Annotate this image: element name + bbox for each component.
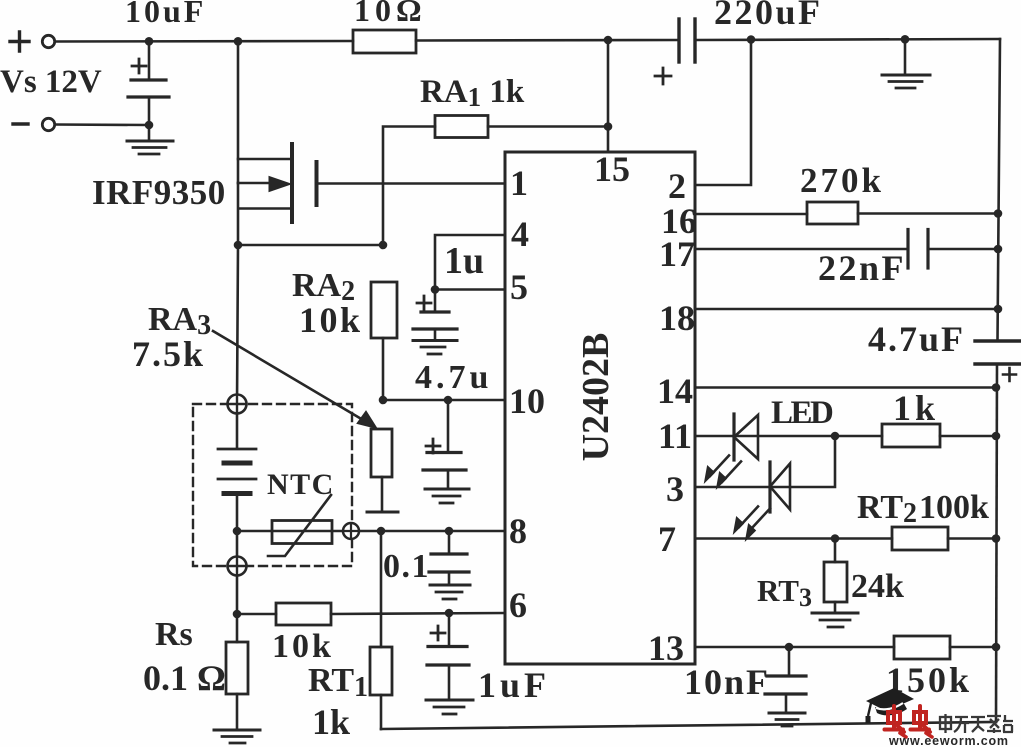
potentiometer RA3 7.5k xyxy=(367,429,398,512)
op-amp U1 U2402B IC body xyxy=(505,152,695,664)
svg-text:5: 5 xyxy=(510,267,528,307)
resistor Rs 0.1 Ohm xyxy=(226,614,248,729)
node Vs- terminal xyxy=(13,118,55,130)
junction dot rail pin18 xyxy=(994,305,1003,314)
junction dot source column xyxy=(234,37,243,46)
junction dot rail pin7 xyxy=(992,534,1001,543)
watermark chongchong glyph 2 xyxy=(911,706,933,737)
wire source column down to battery xyxy=(237,245,238,404)
svg-text:U2402B: U2402B xyxy=(575,333,617,462)
junction dot pin5 corner xyxy=(431,285,440,294)
wire pin 6 row xyxy=(331,613,505,614)
LED D1 xyxy=(734,414,758,460)
resistor 10 Ohm xyxy=(353,30,416,53)
svg-text:1uF: 1uF xyxy=(478,665,550,705)
capacitor 22nF xyxy=(695,230,998,269)
svg-text:RT2100k: RT2100k xyxy=(857,489,989,529)
capacitor 0.1 body and ground xyxy=(429,531,470,599)
wire top rail right xyxy=(695,39,1000,40)
svg-text:22nF: 22nF xyxy=(818,248,906,288)
svg-text:6: 6 xyxy=(509,585,527,625)
LED D2 arrows xyxy=(734,507,771,541)
capacitor 1u loop pins 4-5 xyxy=(435,235,505,290)
svg-text:1k: 1k xyxy=(312,702,350,742)
svg-text:4: 4 xyxy=(511,214,529,254)
svg-text:RA1 1k: RA1 1k xyxy=(420,74,525,112)
svg-text:LED: LED xyxy=(771,395,833,431)
node battery plus terminal xyxy=(228,395,247,414)
svg-text:0.1 Ω: 0.1 Ω xyxy=(143,658,226,698)
wire right rail upper xyxy=(998,39,1001,340)
ground below input cap xyxy=(127,125,173,154)
LED D2 xyxy=(770,462,790,512)
transistor Q1 IRF9350 xyxy=(238,41,317,245)
junction dot pin8 RT1 tap xyxy=(377,527,386,536)
svg-text:11: 11 xyxy=(658,416,692,456)
wire pin 18 row xyxy=(695,308,998,311)
resistor RT2 100k xyxy=(892,527,996,550)
wire gate to pin 1 xyxy=(317,182,505,185)
junction dot pin10 cap xyxy=(444,396,453,405)
svg-text:8: 8 xyxy=(509,511,527,551)
watermark chongchong glyph 1 xyxy=(885,706,907,737)
wire pin 3 row xyxy=(695,436,835,487)
svg-text:270k: 270k xyxy=(800,161,884,200)
junction dot LED join xyxy=(831,432,840,441)
svg-text:www.eeworm.com: www.eeworm.com xyxy=(888,734,1009,747)
node NTC output terminal xyxy=(343,523,359,539)
svg-text:24k: 24k xyxy=(851,568,904,605)
resistor 10k lower xyxy=(237,603,331,625)
LED D1 arrows xyxy=(705,456,742,489)
svg-text:7.5k: 7.5k xyxy=(132,334,205,374)
ground below RT3 xyxy=(812,613,858,627)
svg-text:2: 2 xyxy=(668,166,686,206)
svg-text:1: 1 xyxy=(510,163,528,203)
junction dot pin15 column xyxy=(604,36,613,45)
junction dot drain left xyxy=(234,241,243,250)
resistor RT3 24k xyxy=(824,539,847,613)
node Vs+ terminal xyxy=(10,32,55,51)
svg-text:1k: 1k xyxy=(893,388,939,428)
wire pin 13 row xyxy=(695,646,894,649)
wiper arrow RA3 xyxy=(213,331,377,429)
svg-text:NTC: NTC xyxy=(267,468,335,501)
svg-text:10uF: 10uF xyxy=(125,0,206,29)
junction dot RA1 right xyxy=(604,122,613,131)
wire pin 8 row xyxy=(359,530,505,533)
svg-text:3: 3 xyxy=(666,469,684,509)
svg-text:RT3: RT3 xyxy=(757,573,812,612)
junction dot at 10uF top xyxy=(145,37,154,46)
svg-text:13: 13 xyxy=(648,628,684,668)
junction dot RT3 tap xyxy=(831,534,840,543)
junction dot 10nF tap xyxy=(785,643,794,652)
junction dot rail pin13 xyxy=(992,643,1001,652)
thermistor NTC xyxy=(268,495,332,556)
wire pin2 to 220uF junction xyxy=(695,39,751,185)
resistor 150k xyxy=(894,636,996,659)
junction dot at minus rail xyxy=(145,121,154,130)
junction dot 220uF right xyxy=(747,35,756,44)
wire bottom rail xyxy=(381,722,996,729)
svg-text:14: 14 xyxy=(657,371,693,411)
svg-text:10nF: 10nF xyxy=(684,662,770,702)
junction dot rail pin14 xyxy=(992,383,1001,392)
wire pin 11 row xyxy=(695,435,882,438)
svg-text:4.7uF: 4.7uF xyxy=(868,319,965,359)
junction dot pin10 left xyxy=(379,396,388,405)
wire right rail lower xyxy=(996,364,997,722)
resistor RT1 1k xyxy=(370,531,392,729)
junction dot pin8 cap tap xyxy=(445,527,454,536)
resistor RA1 1k xyxy=(383,40,608,245)
capacitor C 220uF xyxy=(655,19,695,84)
wire NTC row xyxy=(237,530,343,533)
svg-text:220uF: 220uF xyxy=(714,0,823,32)
ground top right xyxy=(882,39,930,88)
wire minus lead xyxy=(55,123,149,126)
svg-text:10k: 10k xyxy=(299,300,363,340)
svg-text:RT1: RT1 xyxy=(308,662,368,703)
junction dot 10k row left xyxy=(233,610,242,619)
svg-text:17: 17 xyxy=(659,234,695,274)
junction dot drain right xyxy=(379,241,388,250)
capacitor 4.7uF right rail xyxy=(975,341,1020,381)
node battery minus terminal xyxy=(228,531,247,614)
junction dot NTC row left xyxy=(233,527,242,536)
svg-text:18: 18 xyxy=(659,298,695,338)
capacitor 1uF body and ground xyxy=(426,613,473,714)
wire pin 10 row xyxy=(383,399,505,402)
svg-text:10k: 10k xyxy=(272,628,334,665)
svg-text:0.1: 0.1 xyxy=(383,548,430,585)
wire pin 7 row xyxy=(695,537,892,540)
battery B1 xyxy=(218,413,256,531)
svg-text:1u: 1u xyxy=(444,240,484,282)
watermark site name glyphs xyxy=(940,714,1013,733)
watermark graduation cap icon xyxy=(866,688,915,723)
resistor 270k xyxy=(695,202,998,224)
wire pin 14 row xyxy=(695,386,996,389)
junction dot rail pin17 xyxy=(994,245,1003,254)
capacitor 10nF body and ground xyxy=(765,647,806,726)
capacitor 4.7u body and ground xyxy=(423,400,469,503)
svg-text:IRF9350: IRF9350 xyxy=(92,173,226,212)
battery pack dashed box xyxy=(193,404,352,566)
junction dot top ground tap xyxy=(901,35,910,44)
resistor RA2 10k xyxy=(371,282,397,400)
resistor 1k LED xyxy=(882,424,996,447)
svg-text:4.7u: 4.7u xyxy=(415,359,492,396)
wire top rail middle xyxy=(416,39,679,42)
junction dot rail pin16 xyxy=(994,209,1003,218)
junction dot rail pin11 xyxy=(992,432,1001,441)
svg-text:10: 10 xyxy=(509,381,545,421)
junction dot pin6 cap tap xyxy=(445,609,454,618)
wire top rail left xyxy=(55,40,353,43)
capacitor 1u body and ground xyxy=(413,290,457,355)
svg-text:7: 7 xyxy=(658,519,676,559)
svg-text:15: 15 xyxy=(594,149,630,189)
svg-text:10Ω: 10Ω xyxy=(354,0,427,28)
capacitor C 10uF xyxy=(128,42,169,126)
ground below Rs xyxy=(214,730,260,743)
svg-text:Vs 12V: Vs 12V xyxy=(0,64,102,100)
wire drain row xyxy=(238,244,383,247)
svg-text:Rs: Rs xyxy=(155,616,193,653)
